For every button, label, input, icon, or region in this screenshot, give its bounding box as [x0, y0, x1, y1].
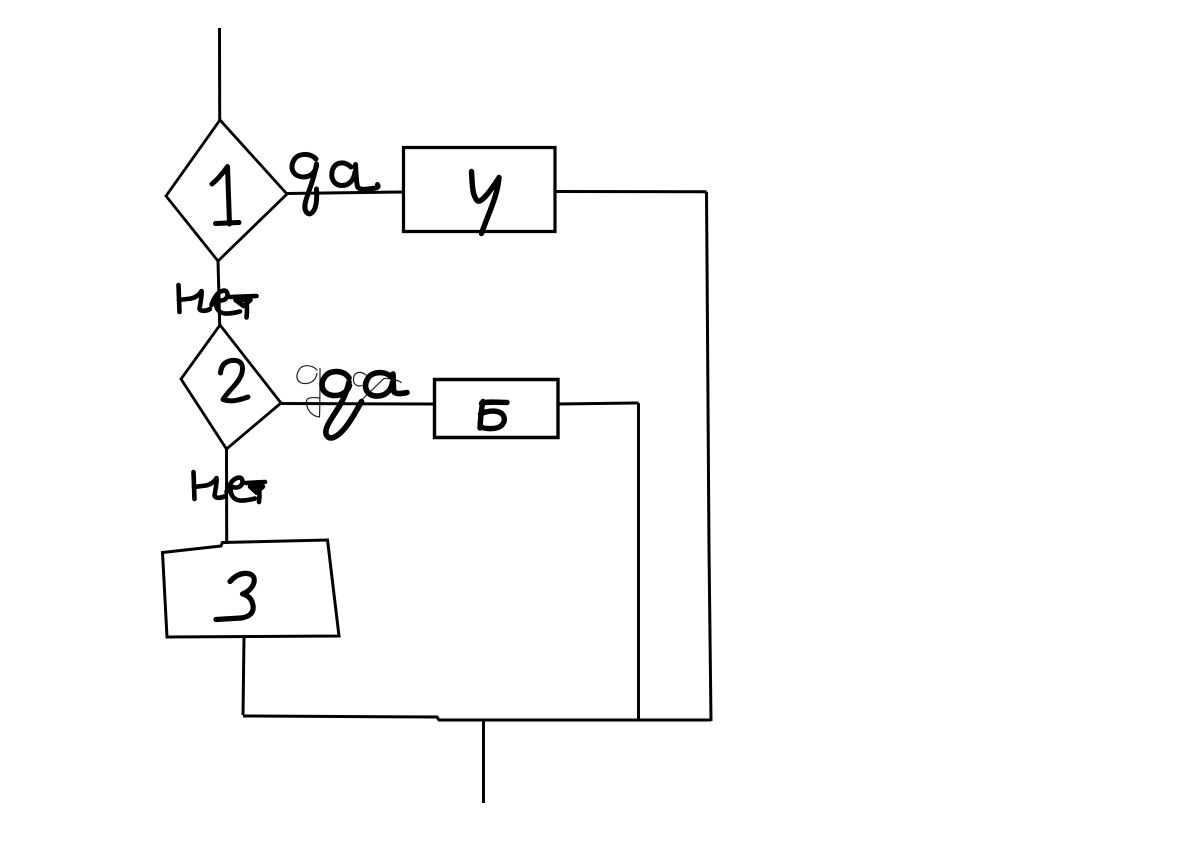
wire: bottom exit stub: [482, 721, 485, 803]
label 3 inside shape: [216, 573, 254, 619]
label 1 inside D1: [212, 167, 239, 225]
label CH inside box: [472, 172, 500, 234]
wire: bottom horizontal collector: [243, 716, 711, 720]
wire: box CH to right rail: [555, 190, 707, 193]
wire: D1 yes to box CH: [287, 192, 404, 194]
process box B: [435, 380, 559, 438]
decision D1 diamond: [166, 120, 287, 261]
wire: D2 yes to box B: [281, 402, 435, 406]
label da (yes) of D2, thick overlayer: [322, 372, 407, 438]
label B inside box: [480, 402, 507, 429]
label da (yes) of D1: [292, 154, 378, 213]
data shape 3 quadrilateral: [163, 540, 340, 637]
wire: D1 no to D2: [218, 261, 220, 325]
process box CH: [404, 148, 556, 232]
wire: top entry stub: [218, 28, 221, 120]
label da (yes) of D2, thin underlayer scribble: [297, 366, 401, 417]
label 2 inside D2: [221, 360, 249, 400]
label net (no) below D1: [179, 285, 257, 318]
wire: box B to mid rail: [558, 403, 639, 404]
wire: mid vertical rail down: [637, 403, 640, 720]
wire: D2 no to shape 3: [225, 449, 228, 544]
wire: shape 3 down: [243, 637, 244, 715]
wire: right vertical rail down: [707, 192, 712, 721]
label net (no) below D2: [194, 472, 266, 502]
decision D2 diamond: [181, 325, 281, 449]
